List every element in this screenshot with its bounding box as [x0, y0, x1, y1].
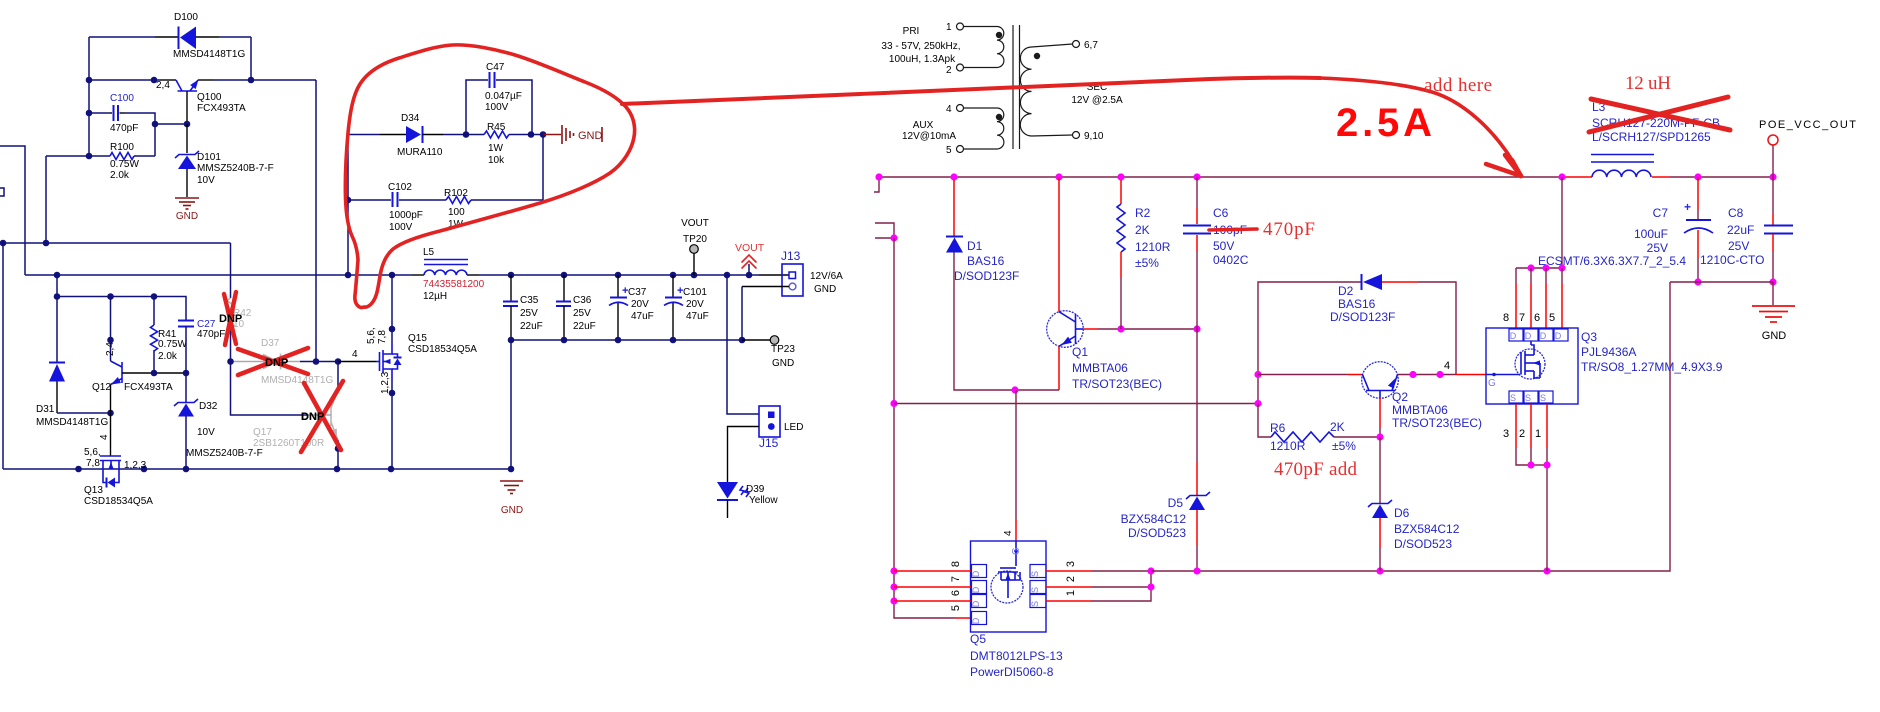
- svg-text:MURA110: MURA110: [397, 147, 443, 158]
- svg-text:6: 6: [950, 590, 962, 596]
- svg-text:22uF: 22uF: [520, 321, 543, 332]
- svg-text:7,8: 7,8: [86, 458, 100, 469]
- svg-text:4: 4: [946, 104, 952, 115]
- wire x46 feed: [45, 156, 47, 243]
- svg-text:CSD18534Q5A: CSD18534Q5A: [84, 496, 153, 507]
- svg-text:MMBTA06: MMBTA06: [1392, 403, 1448, 417]
- gate drive wire x1016: [1015, 390, 1017, 520]
- svg-text:S: S: [1540, 393, 1546, 403]
- wire Q12 base y373: [122, 372, 186, 374]
- capacitor C37 (polar): [617, 275, 619, 297]
- svg-text:12V @2.5A: 12V @2.5A: [1071, 95, 1123, 106]
- svg-text:C8: C8: [1728, 206, 1744, 220]
- main rail y177: [879, 176, 1562, 178]
- svg-text:CSD18534Q5A: CSD18534Q5A: [408, 344, 477, 355]
- bottom rail y571: [1151, 282, 1670, 571]
- diode D1 BAS16: [953, 180, 955, 236]
- connector J15: [759, 406, 780, 437]
- svg-text:100V: 100V: [485, 102, 509, 113]
- svg-text:2: 2: [1519, 428, 1525, 440]
- svg-text:3: 3: [1503, 428, 1509, 440]
- svg-text:S: S: [1510, 393, 1516, 403]
- svg-text:D101: D101: [197, 152, 221, 163]
- svg-text:Q17: Q17: [253, 427, 272, 438]
- svg-text:GND: GND: [501, 505, 523, 516]
- wire x251 D100 right drop: [250, 37, 252, 80]
- svg-text:S: S: [1030, 571, 1040, 577]
- resistor R45: [484, 131, 509, 138]
- svg-text:POE_VCC_OUT: POE_VCC_OUT: [1759, 119, 1856, 131]
- svg-text:C102: C102: [388, 182, 412, 193]
- svg-text:1000pF: 1000pF: [389, 210, 423, 221]
- svg-text:MMSD4148T1G: MMSD4148T1G: [173, 49, 245, 60]
- resistor R6: [1258, 404, 1271, 438]
- svg-text:5,6,: 5,6,: [366, 327, 377, 344]
- svg-text:47uF: 47uF: [686, 311, 709, 322]
- svg-text:25V: 25V: [1647, 241, 1668, 255]
- wire x46->x57 rail drop / y296 wire: [56, 275, 58, 362]
- wire J15 to D39: [728, 427, 760, 483]
- svg-text:MMSD4148T1G: MMSD4148T1G: [261, 375, 333, 386]
- svg-text:4: 4: [99, 434, 110, 440]
- wire x543 down: [542, 135, 544, 201]
- svg-text:4: 4: [352, 349, 358, 360]
- svg-text:TR/SOT23(BEC): TR/SOT23(BEC): [1392, 416, 1482, 430]
- svg-text:D5: D5: [1168, 496, 1184, 510]
- ground GND (POE): [1752, 306, 1795, 322]
- long red line to add-here arrow: [622, 77, 1320, 104]
- svg-text:12V@10mA: 12V@10mA: [902, 131, 956, 142]
- svg-text:PJL9436A: PJL9436A: [1581, 345, 1636, 359]
- svg-text:Q1: Q1: [1072, 345, 1088, 359]
- svg-text:7: 7: [950, 576, 962, 582]
- wire Q100 base: [186, 91, 188, 124]
- svg-text:D/SOD123F: D/SOD123F: [954, 269, 1019, 283]
- node dots: [151, 77, 158, 84]
- svg-text:74435581200: 74435581200: [423, 279, 485, 290]
- svg-text:BZX584C12: BZX584C12: [1394, 522, 1460, 536]
- power symbol GND (right-facing): [543, 134, 561, 136]
- svg-text:TR/SOT23(BEC): TR/SOT23(BEC): [1072, 377, 1162, 391]
- svg-text:DMT8012LPS-13: DMT8012LPS-13: [970, 649, 1063, 663]
- zener D5 BZX584C12: [1186, 492, 1210, 499]
- svg-text:2,4: 2,4: [105, 342, 116, 356]
- svg-text:7: 7: [1519, 312, 1525, 324]
- LED D39 Yellow: [717, 482, 738, 499]
- capacitor C36: [563, 275, 565, 301]
- svg-text:20V: 20V: [631, 299, 649, 310]
- svg-text:D/SOD523: D/SOD523: [1394, 537, 1452, 551]
- svg-text:Q5: Q5: [970, 632, 986, 646]
- svg-text:25V: 25V: [573, 308, 591, 319]
- svg-text:12 uH: 12 uH: [1625, 73, 1671, 94]
- svg-text:R6: R6: [1270, 421, 1286, 435]
- diode D37 (DNP): [231, 361, 264, 363]
- Q3 source pins down: [1515, 404, 1517, 448]
- svg-text:1210R: 1210R: [1270, 439, 1306, 453]
- capacitor C7 (polar): [1697, 177, 1699, 210]
- svg-text:C101: C101: [683, 287, 707, 298]
- capacitor C6: [1196, 177, 1198, 208]
- svg-text:C37: C37: [628, 287, 647, 298]
- svg-text:1: 1: [1535, 428, 1541, 440]
- svg-text:1210C-CTO: 1210C-CTO: [1700, 253, 1764, 267]
- svg-text:+: +: [1684, 200, 1691, 214]
- svg-text:TP23: TP23: [771, 344, 795, 355]
- svg-text:20V: 20V: [686, 299, 704, 310]
- svg-text:50V: 50V: [1213, 239, 1234, 253]
- inductor L3: [1592, 170, 1651, 177]
- svg-text:±5%: ±5%: [1135, 256, 1159, 270]
- wire J13 gnd: [742, 286, 789, 288]
- transistor Q17 (DNP): [337, 362, 339, 391]
- svg-text:1210R: 1210R: [1135, 240, 1171, 254]
- svg-text:6: 6: [1534, 312, 1540, 324]
- wire x110 Q12 branch: [110, 297, 112, 362]
- transistor Q2 MMBTA06: [1258, 374, 1347, 376]
- svg-text:TR/SO8_1.27MM_4.9X3.9: TR/SO8_1.27MM_4.9X3.9: [1581, 360, 1723, 374]
- wire x348: [347, 135, 349, 276]
- X over D37: [238, 349, 308, 374]
- svg-text:D37: D37: [261, 338, 280, 349]
- svg-text:R100: R100: [110, 142, 134, 153]
- rail left hook: [874, 177, 879, 192]
- svg-text:GND: GND: [772, 358, 794, 369]
- svg-text:33 - 57V, 250kHz,: 33 - 57V, 250kHz,: [881, 41, 960, 52]
- svg-text:Q2: Q2: [1392, 390, 1408, 404]
- resistor R42 (DNP): [230, 243, 232, 298]
- svg-text:0.047µF: 0.047µF: [485, 91, 522, 102]
- svg-text:MMBTA06: MMBTA06: [1072, 361, 1128, 375]
- svg-text:PowerDI5060-8: PowerDI5060-8: [970, 665, 1054, 679]
- main rail y275: [25, 274, 412, 276]
- base rail y403: [894, 403, 1257, 405]
- svg-text:AUX: AUX: [913, 120, 934, 131]
- svg-text:D34: D34: [401, 113, 420, 124]
- svg-text:GND: GND: [814, 284, 836, 295]
- svg-text:TP20: TP20: [683, 234, 707, 245]
- svg-text:FCX493TA: FCX493TA: [197, 103, 246, 114]
- svg-text:100: 100: [448, 207, 465, 218]
- svg-text:D31: D31: [36, 404, 55, 415]
- svg-text:Q15: Q15: [408, 333, 427, 344]
- wire x511 down to gnd: [510, 340, 512, 469]
- capacitor C100: [89, 112, 110, 114]
- capacitor C27: [178, 320, 194, 322]
- node dots rail: [875, 173, 882, 180]
- svg-text:FCX493TA: FCX493TA: [124, 382, 173, 393]
- svg-text:470pF add: 470pF add: [1274, 459, 1358, 480]
- svg-text:D: D: [971, 600, 981, 607]
- X over Q17: [304, 383, 341, 450]
- svg-text:MMSD4148T1G: MMSD4148T1G: [36, 417, 108, 428]
- wire y124: [155, 123, 187, 125]
- svg-text:D: D: [971, 617, 981, 624]
- svg-text:D: D: [1555, 331, 1562, 341]
- testpoint TP23: [742, 339, 770, 341]
- svg-text:100uF: 100uF: [1634, 227, 1668, 241]
- svg-text:0.75W: 0.75W: [158, 339, 187, 350]
- svg-text:1W: 1W: [488, 143, 504, 154]
- hand-drawn circle around snubber: [345, 45, 634, 308]
- svg-text:7,8: 7,8: [377, 330, 388, 344]
- svg-text:GND: GND: [1762, 330, 1787, 342]
- connector J13: [782, 264, 803, 296]
- strikethrough 100pF + text 470pF: [1209, 229, 1257, 230]
- svg-text:C100: C100: [110, 93, 134, 104]
- svg-text:47uF: 47uF: [631, 311, 654, 322]
- resistor R41: [153, 297, 155, 326]
- svg-text:2.0k: 2.0k: [158, 351, 178, 362]
- svg-text:1,2,3: 1,2,3: [380, 371, 391, 394]
- svg-text:10V: 10V: [197, 427, 215, 438]
- wire top loop D100: [89, 36, 155, 38]
- svg-text:2.0k: 2.0k: [110, 170, 130, 181]
- wire Q17 base path: [231, 362, 309, 416]
- svg-text:R2: R2: [1135, 206, 1151, 220]
- wire y243: [0, 242, 231, 244]
- svg-text:D2: D2: [1338, 284, 1354, 298]
- svg-text:0402C: 0402C: [1213, 253, 1249, 267]
- svg-text:470pF: 470pF: [1263, 219, 1315, 240]
- add-here arrowhead: [1512, 160, 1521, 176]
- svg-text:470pF: 470pF: [197, 329, 225, 340]
- transformer T1 primary winding: [957, 23, 964, 30]
- resistor R2: [1120, 180, 1122, 204]
- svg-text:LED: LED: [784, 422, 803, 433]
- svg-text:BAS16: BAS16: [967, 254, 1005, 268]
- bottom rail y469: [3, 468, 511, 470]
- transformer T1 secondary winding: [1020, 47, 1031, 136]
- svg-text:22uF: 22uF: [1727, 223, 1754, 237]
- svg-text:2: 2: [1065, 576, 1077, 582]
- svg-text:D: D: [1510, 331, 1517, 341]
- svg-text:Q100: Q100: [197, 92, 222, 103]
- svg-text:8: 8: [1503, 312, 1509, 324]
- wire base net down to D5: [1196, 329, 1198, 462]
- svg-text:4: 4: [1444, 360, 1450, 372]
- svg-text:L5: L5: [423, 247, 435, 258]
- capacitor C35: [510, 275, 512, 301]
- svg-text:D/SOD123F: D/SOD123F: [1330, 310, 1395, 324]
- svg-text:S: S: [1030, 587, 1040, 593]
- svg-text:25V: 25V: [520, 308, 538, 319]
- power POE_VCC_OUT: [1772, 145, 1774, 177]
- mosfet Q3 PJL9436A: [1486, 328, 1578, 404]
- mosfet Q15 CSD18534Q5A: [338, 361, 376, 363]
- zener D101: [186, 124, 188, 153]
- transformer T1 aux winding: [957, 105, 964, 112]
- svg-text:R102: R102: [444, 188, 468, 199]
- svg-text:22uF: 22uF: [573, 321, 596, 332]
- ECSMT bus: [1516, 267, 1562, 269]
- ground GND (D101): [175, 197, 199, 199]
- svg-text:D100: D100: [174, 12, 198, 23]
- svg-text:J15: J15: [759, 436, 779, 450]
- transformer T1 core: [1012, 25, 1014, 149]
- svg-text:2: 2: [946, 65, 952, 76]
- inductor L5: [424, 270, 467, 275]
- cap gnd wire: [1670, 281, 1773, 283]
- svg-text:G: G: [1011, 547, 1022, 555]
- svg-text:12µH: 12µH: [423, 291, 447, 302]
- svg-text:Q3: Q3: [1581, 330, 1597, 344]
- diode D100: [178, 27, 180, 50]
- svg-text:10V: 10V: [197, 175, 215, 186]
- svg-text:2.5A: 2.5A: [1336, 101, 1432, 145]
- svg-text:C6: C6: [1213, 206, 1229, 220]
- testpoint TP20: [693, 253, 695, 275]
- svg-text:DNP: DNP: [301, 411, 324, 423]
- svg-text:D: D: [1525, 331, 1532, 341]
- svg-text:5: 5: [1549, 312, 1555, 324]
- svg-text:3: 3: [1065, 561, 1077, 567]
- svg-text:470pF: 470pF: [110, 123, 138, 134]
- power flag VOUT (red): [748, 264, 750, 275]
- X over R42: [224, 294, 236, 344]
- svg-text:10k: 10k: [488, 155, 505, 166]
- svg-text:MMSZ5240B-7-F: MMSZ5240B-7-F: [197, 163, 274, 174]
- svg-text:D/SOD523: D/SOD523: [1128, 526, 1186, 540]
- svg-text:BAS16: BAS16: [1338, 297, 1376, 311]
- resistor R102: [446, 197, 471, 204]
- svg-text:VOUT: VOUT: [681, 218, 709, 229]
- gnd rail y340: [511, 339, 742, 341]
- svg-text:6,7: 6,7: [1084, 40, 1098, 51]
- zener D6 BZX584C12: [1379, 437, 1381, 503]
- svg-text:100V: 100V: [389, 222, 413, 233]
- svg-text:BZX584C12: BZX584C12: [1121, 512, 1187, 526]
- svg-text:5: 5: [950, 605, 962, 611]
- svg-text:2K: 2K: [1330, 420, 1345, 434]
- svg-text:C7: C7: [1653, 206, 1669, 220]
- X over L3 labels: [1589, 97, 1728, 132]
- svg-text:GND: GND: [578, 130, 603, 142]
- svg-text:PRI: PRI: [903, 26, 920, 37]
- svg-text:2,4: 2,4: [156, 80, 170, 91]
- drain bus x894: [894, 238, 955, 618]
- zener D32: [185, 373, 187, 402]
- transistor Q100 FCX493TA: [176, 80, 182, 91]
- svg-text:12V/6A: 12V/6A: [810, 271, 843, 282]
- svg-text:25V: 25V: [1728, 239, 1749, 253]
- mosfet Q13 CSD18534Q5A: [110, 449, 112, 456]
- svg-text:D6: D6: [1394, 506, 1410, 520]
- svg-text:S: S: [1030, 601, 1040, 607]
- svg-text:C47: C47: [486, 62, 505, 73]
- wire y80 emitter-collector rail: [89, 79, 160, 81]
- drain drop from rail to ECSMT bus: [1561, 177, 1563, 268]
- ground GND (main left): [500, 480, 523, 482]
- mosfet Q5 DMT8012LPS-13: [971, 541, 1047, 632]
- svg-text:2K: 2K: [1135, 223, 1150, 237]
- wire x3 left edge vertical: [2, 243, 4, 469]
- svg-text:G: G: [1488, 378, 1496, 389]
- svg-text:D: D: [971, 570, 981, 577]
- capacitor C8: [1772, 177, 1774, 214]
- svg-text:D1: D1: [967, 239, 983, 253]
- wire y146 + x25 rail feed: [0, 146, 25, 275]
- svg-text:ECSMT/6.3X6.3X7.7_2_5.4: ECSMT/6.3X6.3X7.7_2_5.4: [1538, 254, 1686, 268]
- sec stub wires: [875, 223, 894, 238]
- svg-text:GND: GND: [176, 211, 198, 222]
- resistor R100: [46, 155, 110, 157]
- gate wire to Q3: [1456, 374, 1486, 376]
- svg-text:1: 1: [1065, 590, 1077, 596]
- svg-text:100uH, 1.3Apk: 100uH, 1.3Apk: [889, 54, 956, 65]
- svg-text:8: 8: [950, 561, 962, 567]
- transistor Q1 MMBTA06: [1058, 177, 1060, 312]
- svg-text:Q13: Q13: [84, 485, 103, 496]
- svg-text:D32: D32: [199, 401, 218, 412]
- svg-text:Q12: Q12: [92, 382, 111, 393]
- diode D31: [49, 362, 65, 364]
- svg-text:D: D: [1540, 331, 1547, 341]
- svg-text:1: 1: [946, 22, 952, 33]
- svg-text:1,2,3: 1,2,3: [124, 460, 147, 471]
- svg-text:VOUT: VOUT: [735, 242, 765, 254]
- svg-text:2SB1260T100R: 2SB1260T100R: [253, 438, 324, 449]
- capacitor C47: [466, 80, 488, 135]
- svg-text:D39: D39: [746, 484, 765, 495]
- svg-text:DNP: DNP: [265, 357, 288, 369]
- svg-text:5: 5: [946, 145, 952, 156]
- svg-text:9,10: 9,10: [1084, 131, 1104, 142]
- Q5 pin wires: [894, 570, 940, 572]
- svg-text:5,6,: 5,6,: [84, 447, 101, 458]
- svg-text:DNP: DNP: [219, 313, 242, 325]
- diode D2 BAS16: [1361, 274, 1363, 290]
- D2 loop: [1258, 282, 1361, 404]
- svg-text:4: 4: [1003, 530, 1014, 536]
- svg-text:D: D: [971, 586, 981, 593]
- svg-text:C35: C35: [520, 295, 539, 306]
- capacitor C101 (polar): [672, 275, 674, 297]
- svg-text:S: S: [1525, 393, 1531, 403]
- svg-text:0.75W: 0.75W: [110, 159, 139, 170]
- svg-text:add here: add here: [1424, 75, 1492, 96]
- svg-text:L/SCRH127/SPD1265: L/SCRH127/SPD1265: [1592, 130, 1711, 144]
- wire x316 long vertical: [315, 80, 317, 362]
- off-page stub box: [0, 188, 4, 196]
- svg-text:MMSZ5240B-7-F: MMSZ5240B-7-F: [186, 448, 263, 459]
- wire LED feed: [727, 275, 759, 414]
- wire left vertical x89: [88, 37, 90, 156]
- diode D34 MURA110: [348, 134, 380, 136]
- svg-text:J13: J13: [781, 249, 801, 263]
- svg-text:C36: C36: [573, 295, 592, 306]
- svg-text:R45: R45: [487, 122, 506, 133]
- svg-text:Yellow: Yellow: [749, 495, 778, 506]
- transistor Q12 FCX493TA: [111, 361, 123, 367]
- capacitor C102: [348, 199, 391, 201]
- svg-text:±5%: ±5%: [1332, 439, 1356, 453]
- wire Q12 to Q13 gate: [110, 385, 112, 450]
